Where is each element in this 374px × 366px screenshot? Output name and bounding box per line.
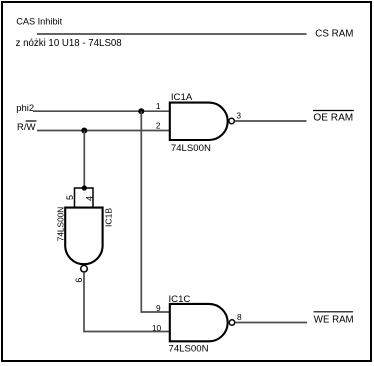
wire R/W to pin2 xyxy=(37,130,170,132)
wire CS RAM net xyxy=(37,33,307,35)
svg-text:74LS00N: 74LS00N xyxy=(171,143,211,154)
wire IC1A output to OE RAM xyxy=(235,120,307,122)
svg-text:z nóżki 10 U18 - 74LS08: z nóżki 10 U18 - 74LS08 xyxy=(16,38,122,49)
svg-text:74LS00N: 74LS00N xyxy=(55,207,65,242)
svg-text:8: 8 xyxy=(237,312,242,322)
gate IC1C output bubble xyxy=(229,320,234,325)
gate IC1B pin stubs xyxy=(75,188,94,208)
svg-text:WE RAM: WE RAM xyxy=(314,315,354,326)
svg-text:5: 5 xyxy=(65,195,75,200)
junction A on phi2 wire xyxy=(138,108,144,114)
svg-text:2: 2 xyxy=(156,120,161,130)
svg-text:OE RAM: OE RAM xyxy=(313,113,353,124)
wire IC1B output down to pin10 xyxy=(84,273,170,332)
gate IC1B body (points down) xyxy=(65,208,102,265)
gate IC1B output bubble xyxy=(81,265,88,272)
wire vertical from R/W junction to IC1B inputs xyxy=(83,131,85,188)
svg-text:CS RAM: CS RAM xyxy=(315,28,353,39)
svg-text:R/W: R/W xyxy=(17,122,36,133)
svg-text:9: 9 xyxy=(156,303,161,313)
svg-text:4: 4 xyxy=(84,196,94,201)
gate IC1A output bubble xyxy=(229,118,234,123)
overline WE RAM xyxy=(314,311,354,313)
overline OE RAM xyxy=(313,110,354,112)
svg-text:10: 10 xyxy=(152,323,162,333)
svg-text:IC1B: IC1B xyxy=(103,208,113,227)
junction B on R/W wire xyxy=(81,128,87,134)
svg-text:CAS Inhibit: CAS Inhibit xyxy=(16,17,62,27)
svg-text:6: 6 xyxy=(74,278,84,283)
svg-text:74LS00N: 74LS00N xyxy=(169,344,209,355)
junction on IC1B input xyxy=(82,185,87,190)
wire phi2 to pin1 xyxy=(33,110,170,112)
svg-text:phi2: phi2 xyxy=(16,103,34,114)
overline over W xyxy=(26,120,37,122)
wire vertical from phi2 junction to pin9 xyxy=(141,111,169,312)
gate IC1C body xyxy=(170,304,228,341)
svg-text:1: 1 xyxy=(156,101,161,111)
wire IC1C output to WE RAM xyxy=(235,322,307,324)
svg-text:3: 3 xyxy=(236,111,241,121)
gate IC1A body xyxy=(170,103,228,140)
svg-text:IC1A: IC1A xyxy=(171,92,193,103)
